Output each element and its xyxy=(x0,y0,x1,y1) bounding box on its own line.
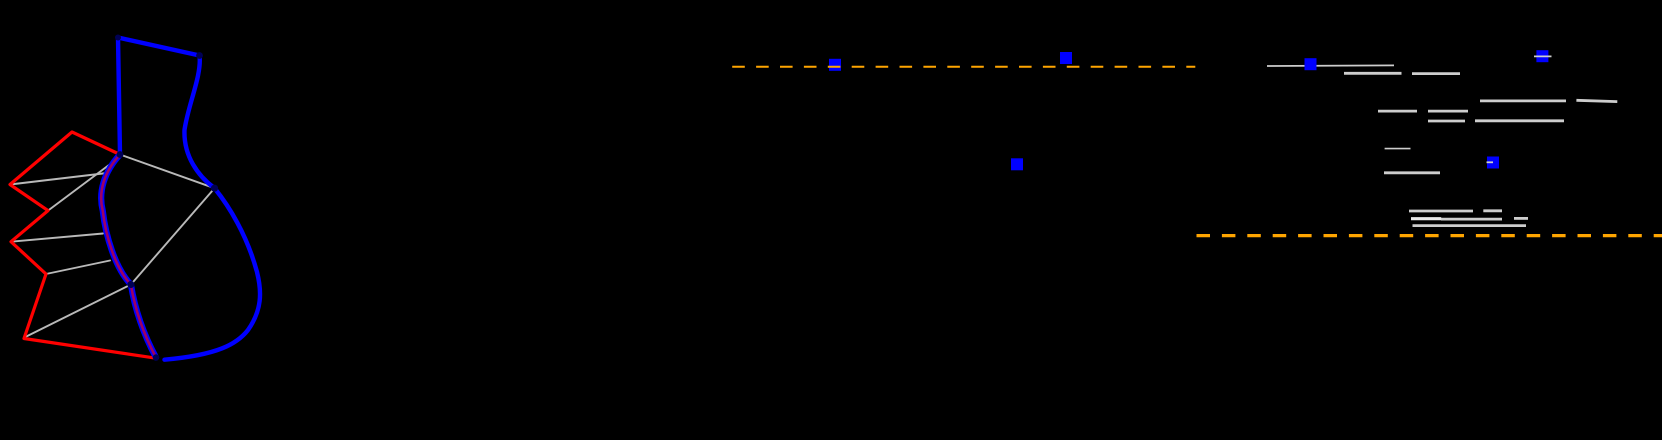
chord from vertex R4 to arc xyxy=(11,234,103,242)
node D xyxy=(211,185,218,192)
chord from vertex R2 to arc xyxy=(10,173,107,185)
blue left edge P0-A xyxy=(118,38,120,155)
gray interval row y101 right xyxy=(1576,100,1617,101)
gray interval row y121 left xyxy=(1428,120,1465,123)
gray interval row y121 right xyxy=(1475,119,1564,122)
gray interval row y73 right xyxy=(1412,72,1460,75)
gray interval row y173 xyxy=(1384,171,1440,174)
red zigzag chain A-R1-R2-R3-R4-R5-R6-C xyxy=(10,132,154,358)
node P1 xyxy=(196,52,203,59)
blue right neck S-curve P1-D xyxy=(184,56,214,189)
chord from node B to vertex R6 xyxy=(26,285,131,337)
gray interval row y219 right xyxy=(1514,217,1528,220)
chord from vertex R3 to node A xyxy=(48,156,121,211)
orange dashed upper bound line xyxy=(732,66,1195,68)
red core stripe along inner arc A-B-C xyxy=(101,155,156,358)
long thin gray line behind square S3 xyxy=(1267,64,1394,67)
gray interval row y101 left xyxy=(1480,100,1566,103)
square marker S2 xyxy=(1060,52,1072,64)
blue inner arc A-B-C xyxy=(101,155,156,358)
node C xyxy=(153,354,159,360)
chord from node B to node D xyxy=(131,188,215,284)
gray tick across square S4 xyxy=(1534,55,1552,57)
square marker S5 xyxy=(1487,157,1499,169)
blue top edge P0-P1 xyxy=(118,38,200,56)
node A xyxy=(117,151,124,158)
node B xyxy=(127,281,134,288)
square marker S3 xyxy=(1305,58,1317,70)
node P0 xyxy=(115,35,121,41)
blue bottom bowl arc D-C xyxy=(165,188,261,360)
orange dashed lower bound line xyxy=(1197,234,1662,237)
gray notch on square S5 xyxy=(1487,161,1494,163)
bright interval row y219 left xyxy=(1411,217,1441,220)
gray interval row y226 xyxy=(1413,224,1527,227)
chord from node A to node D xyxy=(120,155,215,189)
chord from vertex R5 to arc xyxy=(46,261,110,275)
gray interval row y111 right xyxy=(1428,110,1468,113)
square marker S6 xyxy=(1011,158,1023,170)
square marker S1 xyxy=(829,59,841,71)
gray interval row y211 right xyxy=(1483,209,1502,212)
gray interval row y219 mid xyxy=(1441,218,1502,221)
thin gray interval row y149 xyxy=(1385,148,1411,150)
gray interval row y211 left xyxy=(1409,210,1473,213)
square marker S4 xyxy=(1536,50,1548,62)
gray interval row y73 left xyxy=(1344,72,1402,75)
gray interval row y111 left xyxy=(1378,110,1417,113)
